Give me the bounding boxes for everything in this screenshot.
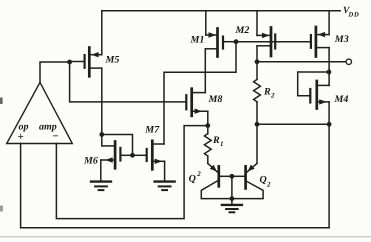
wire M5 source to VDD [101,11,103,55]
svg-text:M5: M5 [105,55,120,66]
wire M3 source to VDD [328,11,330,35]
wire M5 drain down to node A [101,68,103,146]
wire gate bus down to M7 drain [164,42,236,144]
wire op-amp + input to M4 source net [21,144,330,228]
svg-text:DD: DD [348,12,360,19]
wire node A to M6/M7 gates [102,135,133,156]
svg-text:−: − [52,131,59,143]
node A M5 drain / M6 junction [99,132,104,137]
wire M2 source to VDD [256,11,258,36]
wire M8 drain up to M1 drain [204,49,206,93]
node output junction at M2 drain [255,59,260,64]
wire M3 drain down to M4 [328,48,330,72]
transistor M6 [83,142,133,169]
resistor R1 [204,126,223,164]
op-amp U1 [7,82,73,143]
ground center [222,205,242,212]
wire R2 bottom down to Q2 emitter [256,124,258,163]
svg-text:M1: M1 [190,34,205,45]
wire M7 source to ground [164,161,166,181]
wire M8 source down to feedback node [207,111,209,125]
wire M4 diode loop [298,72,329,96]
wire op-amp output to M5 gate [40,62,70,82]
svg-text:2: 2 [266,181,271,189]
wire VDD rail [102,10,340,12]
node output terminal [346,59,351,64]
scan artifact: left edge marks [0,98,3,212]
wire output line [257,61,346,63]
svg-text:M7: M7 [144,125,160,136]
svg-text:M8: M8 [208,94,223,105]
node R2 bottom junction [255,122,260,127]
scan artifact: faint rule at bottom [0,236,371,238]
transistor M8 [186,89,222,116]
svg-text:R: R [263,87,271,98]
transistor Q2 (right) [232,163,271,198]
wire op-amp - input feedback to R1 top [56,126,207,219]
wire gate bus M1-M2-M3 [236,41,310,43]
transistor M3 [311,27,349,57]
node op-amp output junction [67,60,72,65]
svg-text:+: + [18,131,24,143]
svg-text:M3: M3 [334,34,349,45]
node M4 gate-drain junction [327,70,332,75]
wire op-amp output down to M8 gate [70,62,186,102]
svg-text:2: 2 [196,170,201,178]
wire Q bases down to collectors/ground [231,176,233,198]
svg-text:M4: M4 [334,94,349,105]
svg-text:1: 1 [220,140,224,148]
resistor R2 [254,62,275,125]
transistor M7 [133,125,165,170]
ground under M7 [155,182,175,191]
transistor M5 [70,48,120,77]
node Q collector/ground junction [230,196,235,201]
node M4 source junction [327,122,332,127]
transistor M4 [310,81,348,109]
transistor Q1 (left, labeled Q2) [189,163,232,198]
transistor M2 [235,25,276,56]
wire M1 source to VDD [205,11,207,35]
wire M4 drain up [328,72,330,85]
svg-text:Q: Q [189,174,196,185]
svg-text:Q: Q [260,175,267,186]
wire ground stub [231,199,233,205]
node mirror gate junction [234,39,239,44]
ground under M6 [91,182,111,191]
node M6/M7 gate junction [130,153,135,158]
node VDD label [343,6,360,19]
wire M4 source down to + net [328,102,330,228]
wire M2 drain down to output node [256,46,258,62]
svg-text:M6: M6 [83,156,98,167]
svg-text:R: R [212,135,220,146]
node feedback junction (M8 source / R1 top) [205,123,210,128]
wire M6 source to ground [100,160,102,181]
transistor M1 [190,29,237,57]
svg-text:M2: M2 [235,25,250,36]
wire R2 bottom to M4 source [257,123,329,125]
svg-text:2: 2 [270,92,275,100]
node Q base junction [230,174,235,179]
